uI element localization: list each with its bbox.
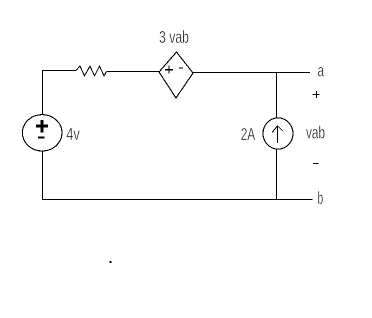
svg-text:a: a [318,61,325,80]
minus sign inside voltage source [38,137,45,139]
plus sign inside diamond [165,66,173,74]
svg-text:3 vab: 3 vab [159,28,189,47]
resistor (zigzag) [76,66,107,76]
wire: resistor to dependent source [107,71,160,73]
current source I1 circle [263,118,293,149]
svg-text:2A: 2A [241,125,256,144]
wire: current source to bottom wire [276,149,278,200]
wire: left vertical upper (node top-left to V1 top) [42,70,44,115]
svg-text:b: b [318,189,324,208]
dependent voltage source (diamond) 3vab [159,52,193,98]
voltage source V1 circle [22,115,62,151]
polarity plus (vab) [313,91,320,98]
stray dot artifact [110,261,112,263]
plus sign inside voltage source [36,120,48,133]
svg-text:vab: vab [306,124,325,143]
wire: V1 bottom to bottom-left corner [42,151,44,200]
minus sign inside diamond [179,67,183,69]
svg-text:4v: 4v [66,125,80,144]
bottom wire (node b rail) [42,199,313,201]
wire: top horizontal from top-left corner to resistor [42,70,76,72]
wire: junction vertical to current source [276,72,278,118]
current source arrow [272,126,283,143]
polarity minus (vab) [313,163,319,165]
wire: dependent source to node a [193,72,310,74]
